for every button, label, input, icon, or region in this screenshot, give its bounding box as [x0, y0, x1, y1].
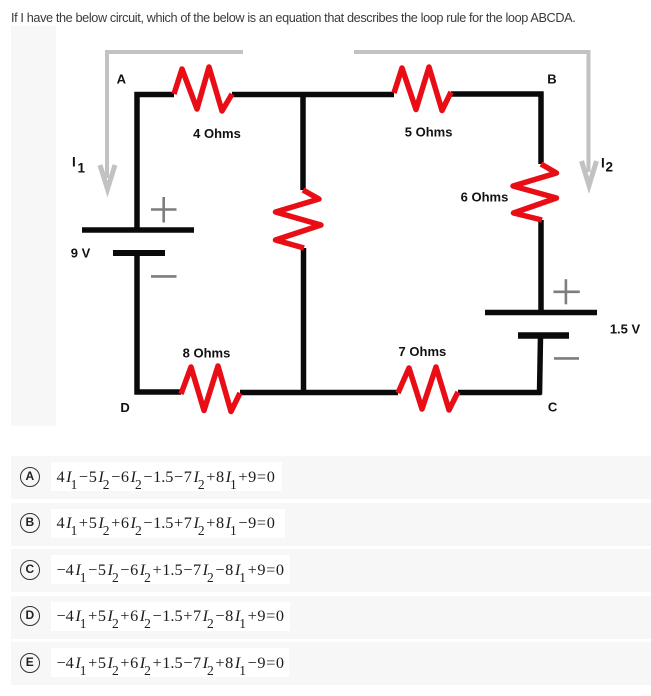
svg-text:1.5 V: 1.5 V [610, 321, 641, 336]
svg-text:C: C [548, 400, 558, 415]
svg-text:1: 1 [78, 160, 86, 175]
svg-text:4 Ohms: 4 Ohms [193, 126, 241, 141]
svg-text:6 Ohms: 6 Ohms [461, 190, 509, 205]
svg-text:9 V: 9 V [71, 245, 91, 260]
svg-text:I: I [601, 156, 605, 171]
svg-text:2: 2 [606, 160, 614, 175]
svg-text:I: I [72, 155, 76, 170]
svg-text:5 Ohms: 5 Ohms [405, 125, 453, 140]
svg-text:8 Ohms: 8 Ohms [183, 345, 231, 360]
svg-text:D: D [120, 400, 129, 415]
svg-text:7 Ohms: 7 Ohms [399, 344, 447, 359]
svg-text:B: B [547, 71, 556, 86]
svg-text:A: A [117, 72, 127, 87]
